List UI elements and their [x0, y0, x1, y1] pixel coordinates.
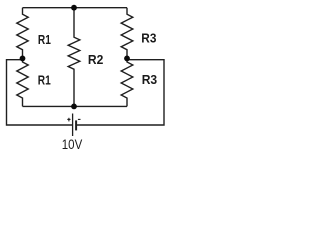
resistor R3 (top right) [121, 8, 133, 57]
resistor R1 (top left) [17, 8, 28, 57]
svg-text:R3: R3 [142, 73, 157, 87]
battery minus sign [78, 118, 81, 120]
label 10V battery value [62, 136, 83, 152]
svg-text:10V: 10V [62, 136, 83, 152]
node T junction dot (top of R2) [71, 5, 77, 11]
wire left tap from node between R1s down to battery + [7, 60, 73, 125]
resistor R1 (bottom left) [17, 60, 28, 106]
node R junction dot (between R3s) [124, 56, 130, 62]
wire right tap from node between R3s down to battery - [76, 60, 164, 125]
node B junction dot (bottom of R2) [71, 104, 77, 110]
battery V1 negative plate (short) [75, 120, 77, 130]
label R1 (bottom) [38, 73, 51, 87]
svg-text:R1: R1 [38, 33, 51, 47]
svg-text:R1: R1 [38, 73, 51, 87]
battery V1 positive plate (long) [72, 114, 74, 137]
wire bottom bus [23, 105, 128, 107]
node L junction dot (between R1s) [20, 56, 26, 62]
resistor R3 (bottom right) [121, 60, 133, 106]
battery plus sign [67, 118, 70, 122]
svg-text:R3: R3 [141, 31, 156, 46]
label R2 [88, 53, 103, 67]
resistor R2 (middle) [68, 8, 80, 107]
label R3 (bottom) [142, 73, 157, 87]
wire top bus [23, 7, 128, 9]
svg-text:R2: R2 [88, 53, 103, 67]
label R1 (top) [38, 33, 51, 47]
label R3 (top) [141, 31, 156, 46]
